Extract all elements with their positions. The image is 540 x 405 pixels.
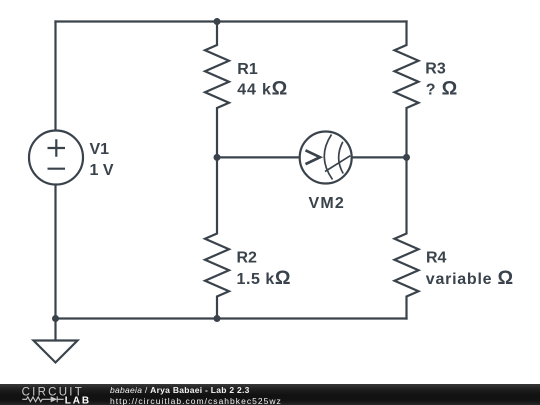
svg-text:? Ω: ? Ω [426,77,458,99]
svg-text:R3: R3 [425,60,446,77]
CircuitLab logo [0,384,100,405]
wire left rail lower (V1 to ground node) [54,185,56,319]
resistor R2 [205,157,229,318]
voltage source V1 [29,131,83,185]
voltmeter VM2 [300,132,352,184]
node A (R1/R2/VM junction) [214,154,221,161]
resistor R4 [395,157,419,318]
ground [34,319,78,363]
svg-text:1 V: 1 V [90,162,114,179]
svg-text:R2: R2 [237,249,258,266]
svg-text:LAB: LAB [65,396,91,405]
svg-text:R1: R1 [237,61,258,78]
svg-text:1.5 kΩ: 1.5 kΩ [237,267,292,289]
footer bar [0,384,540,405]
node top (R1 top) [214,18,221,25]
wire mid left (node A to voltmeter) [217,156,301,158]
svg-text:VM2: VM2 [309,195,346,212]
svg-text:R4: R4 [426,249,447,266]
node B (R3/R4/VM junction) [403,154,410,161]
wire bottom rail [56,317,407,319]
footer title line [110,386,250,394]
wire top rail [56,20,407,22]
resistor R3 [395,22,419,158]
wire mid right (voltmeter to node B) [351,156,407,158]
logo resistor-diode glyph [22,396,63,402]
svg-text:variable Ω: variable Ω [426,267,514,289]
wire left rail upper (top rail to V1) [54,22,56,131]
footer url line [110,397,282,405]
svg-text:V1: V1 [90,141,110,158]
svg-text:44 kΩ: 44 kΩ [237,78,288,100]
resistor R1 [205,22,229,158]
node ground [52,315,59,322]
node bottom mid (R2 bottom) [214,315,221,322]
